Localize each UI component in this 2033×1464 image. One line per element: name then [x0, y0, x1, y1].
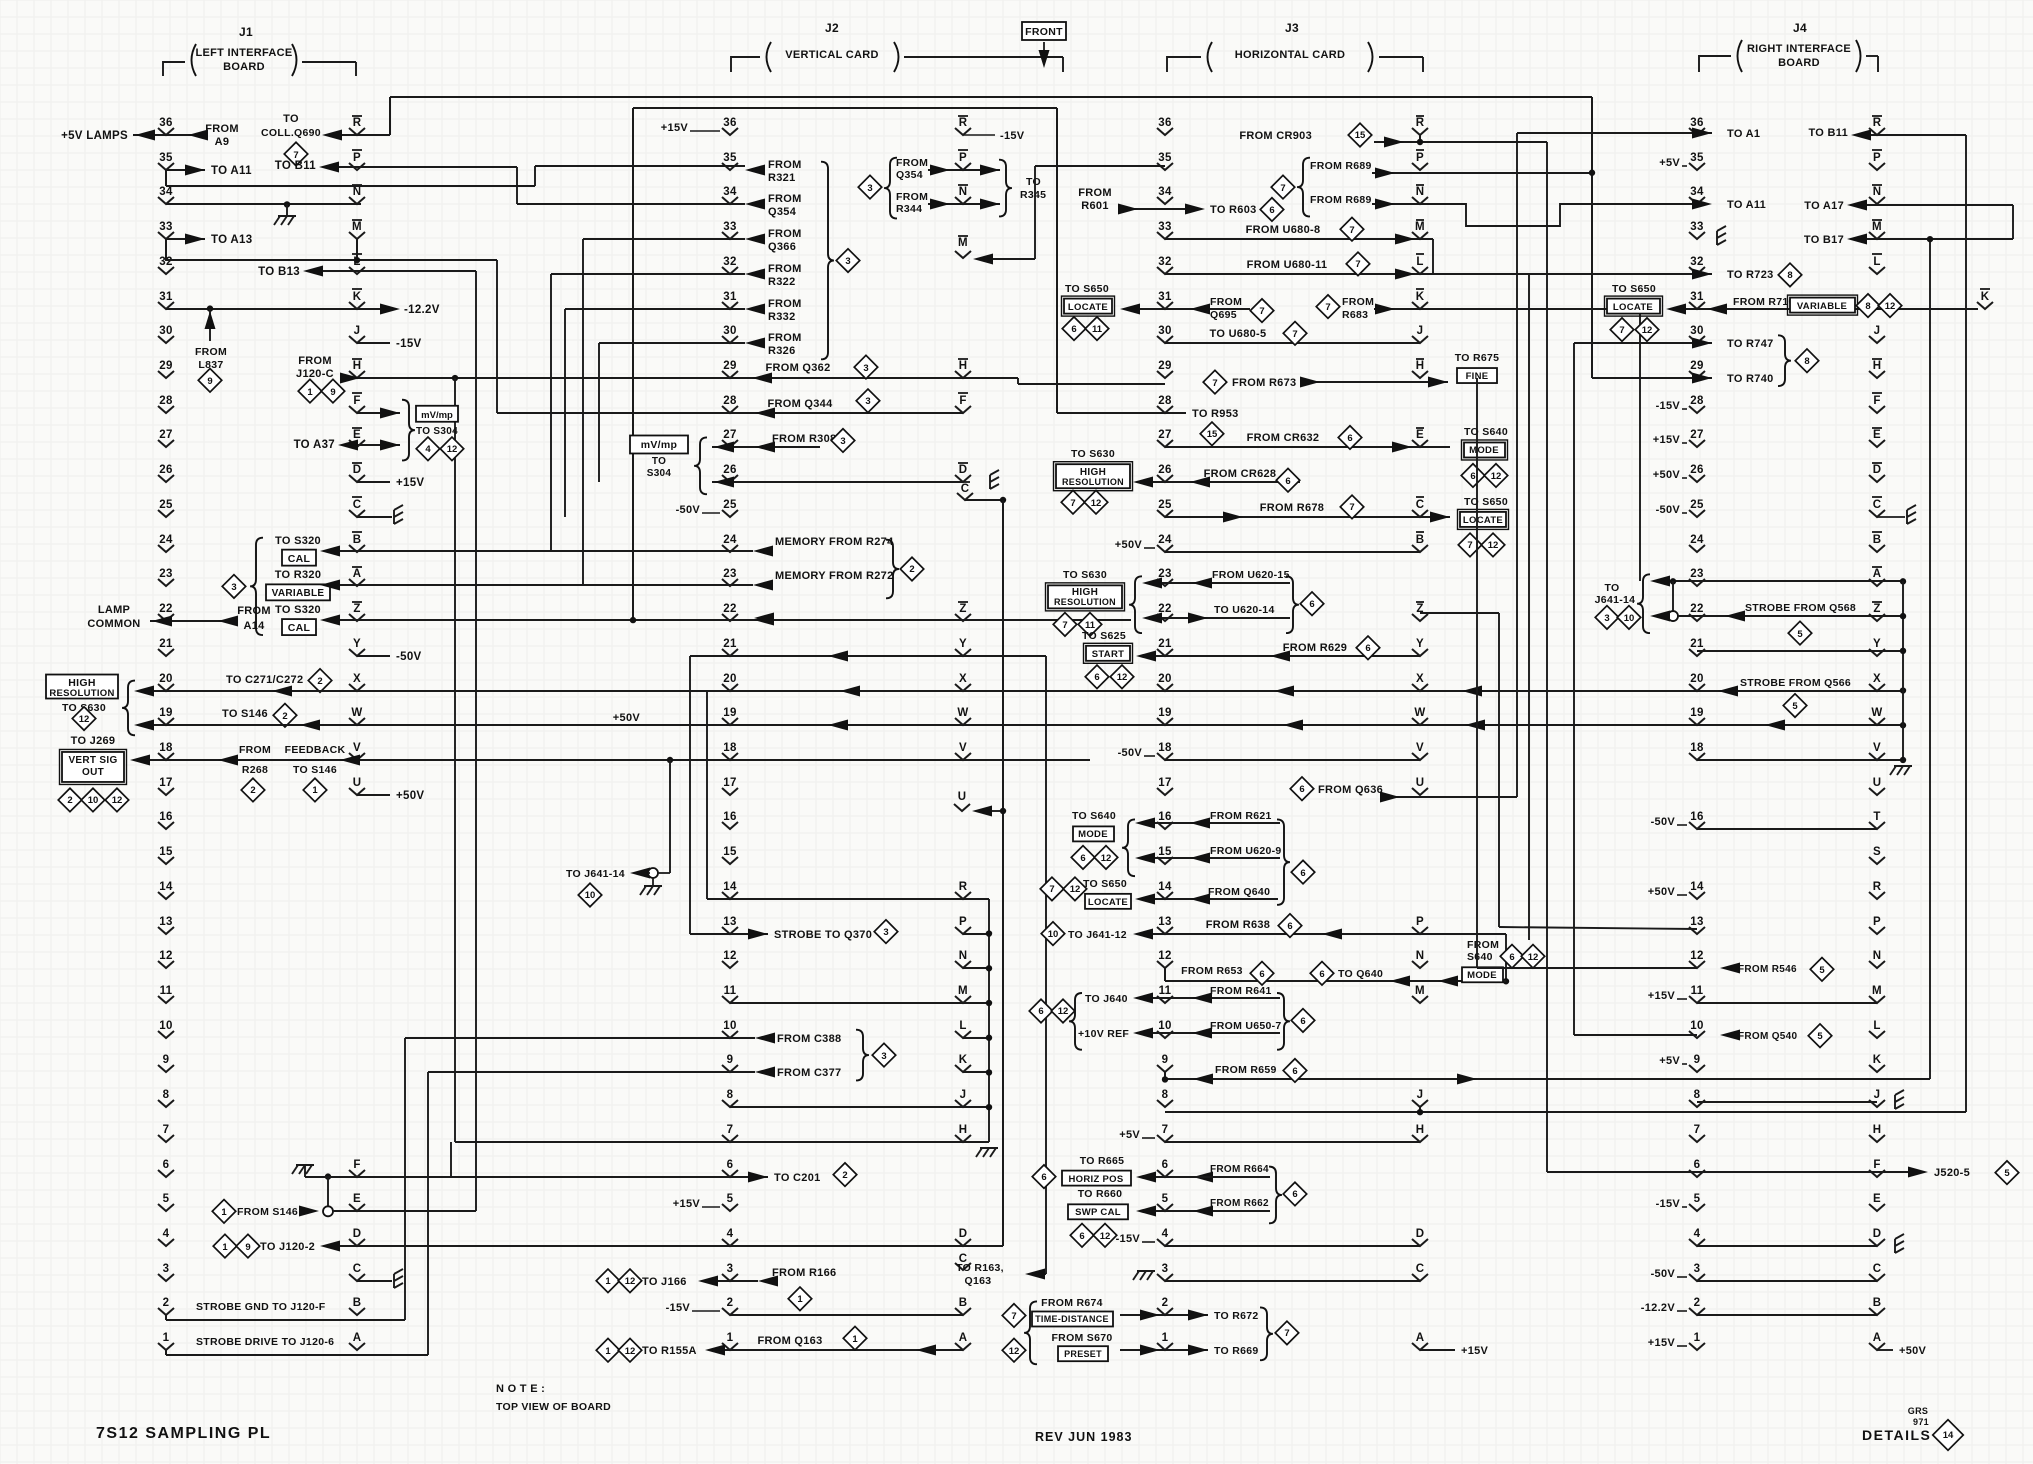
- label LAMP COMMON: [87, 604, 140, 630]
- connector J4 pin H (row 7): [1869, 1124, 1885, 1142]
- connector J2 pin 26: [722, 464, 738, 482]
- svg-text:3: 3: [1162, 1263, 1169, 1275]
- svg-text:20: 20: [1158, 673, 1171, 685]
- svg-text:5: 5: [1694, 1193, 1701, 1205]
- svg-text:2: 2: [67, 795, 72, 806]
- svg-text:27: 27: [723, 429, 736, 441]
- connector J1 pin D (row 4): [349, 1228, 365, 1246]
- svg-text:TO C271/C272: TO C271/C272: [226, 674, 303, 686]
- connector J4 pin 2: [1689, 1297, 1705, 1315]
- svg-text:+10V REF: +10V REF: [1078, 1028, 1129, 1040]
- svg-text:P: P: [1873, 152, 1881, 164]
- svg-text:TO R672: TO R672: [1214, 1310, 1259, 1322]
- wire FROM L837 up-arrow: [205, 309, 216, 341]
- svg-text:B: B: [353, 1297, 362, 1309]
- connector J2 pin 33: [722, 221, 738, 239]
- svg-text:31: 31: [159, 291, 173, 303]
- svg-text:7: 7: [1292, 329, 1297, 340]
- svg-text:K: K: [1873, 1054, 1882, 1066]
- svg-text:+50V: +50V: [613, 712, 641, 724]
- svg-text:FROM: FROM: [768, 159, 802, 171]
- wire J2 N row to riser: [963, 965, 992, 971]
- svg-text:J: J: [1874, 325, 1881, 337]
- svg-text:TO R740: TO R740: [1727, 373, 1774, 385]
- diamond 7 (R689 group): [1271, 175, 1294, 198]
- svg-text:32: 32: [1158, 256, 1171, 268]
- svg-text:K: K: [1981, 291, 1990, 303]
- svg-text:7: 7: [1259, 306, 1264, 317]
- connector J2 pin C (row 3): [955, 1253, 971, 1270]
- diamond 3 (P/N group): [858, 175, 881, 198]
- svg-text:C: C: [353, 499, 362, 511]
- label FROM R674: [1041, 1297, 1103, 1309]
- label FROM Q354: [768, 193, 802, 218]
- svg-text:-15V: -15V: [1116, 1233, 1141, 1245]
- box CAL (J1 B-bar): [282, 550, 316, 566]
- connector J3 pin 11: [1157, 985, 1173, 1003]
- svg-text:TO R155A: TO R155A: [642, 1345, 697, 1357]
- svg-text:FROM R308: FROM R308: [772, 433, 836, 445]
- connector J3 pin 7: [1157, 1124, 1173, 1142]
- svg-text:3: 3: [883, 927, 888, 938]
- connector J1 pin Y (row 21): [349, 638, 365, 656]
- svg-text:LOCATE: LOCATE: [1068, 302, 1108, 313]
- svg-text:F: F: [1873, 1159, 1880, 1171]
- connector J2 pin 32: [722, 256, 738, 274]
- svg-text:A: A: [1873, 1332, 1882, 1344]
- svg-text:10: 10: [1048, 929, 1059, 940]
- diamonds 2 10 12 (VERT SIG OUT): [58, 788, 128, 811]
- connector J4 pin 23: [1689, 568, 1705, 586]
- svg-text:10: 10: [1690, 1020, 1703, 1032]
- svg-text:Q695: Q695: [1210, 309, 1237, 321]
- label MEMORY FROM R272: [775, 570, 893, 582]
- connector J4 pin 36: [1689, 117, 1705, 135]
- svg-text:+15V: +15V: [1648, 1337, 1676, 1349]
- svg-text:E: E: [1873, 1193, 1881, 1205]
- connector J2 pin D-bar (row 26): [955, 463, 971, 482]
- svg-text:K: K: [353, 291, 362, 303]
- connector J4 pin J (row 8): [1869, 1089, 1885, 1107]
- wire J3-7 row +5V: [1119, 1129, 1420, 1142]
- svg-text:24: 24: [1690, 534, 1704, 546]
- svg-text:H: H: [959, 360, 968, 372]
- label TO J641-14 (J4): [1595, 582, 1636, 606]
- svg-text:D: D: [353, 1228, 362, 1240]
- svg-text:19: 19: [159, 707, 172, 719]
- wire J2 K row stub: [963, 1069, 992, 1075]
- connector J3 pin E-bar (row 27): [1412, 428, 1428, 447]
- label TO R660 (J3-5): [1078, 1188, 1123, 1200]
- svg-text:6: 6: [1365, 643, 1370, 654]
- svg-text:TO S630: TO S630: [1071, 448, 1115, 460]
- svg-text:MODE: MODE: [1467, 970, 1497, 981]
- svg-text:3: 3: [881, 1051, 886, 1062]
- wire riser x405 (row2 up to J2-10 row): [404, 1038, 406, 1320]
- wire J1-23 row to J2-23 (MEMORY FROM R272): [320, 580, 773, 591]
- brace left S320 group (J1): [250, 538, 263, 635]
- connector J3 pin 35: [1157, 152, 1173, 170]
- svg-text:21: 21: [159, 638, 173, 650]
- connector J1 pin 29: [158, 360, 174, 378]
- label TO Q640: [1310, 962, 1410, 987]
- label TO S320 (J1 Z-bar): [275, 604, 321, 616]
- svg-text:+15V: +15V: [1653, 434, 1681, 446]
- svg-text:FROM Q362: FROM Q362: [765, 362, 830, 374]
- wire J3-8 long row to x1966: [1165, 1109, 1966, 1115]
- svg-text:32: 32: [1690, 256, 1703, 268]
- svg-text:11: 11: [1159, 985, 1172, 997]
- connector J2 pin W (row 19): [955, 707, 971, 725]
- svg-text:COLL.Q690: COLL.Q690: [261, 127, 321, 139]
- connector J4 pin Y (row 21): [1869, 638, 1885, 656]
- wire riser x583 (to J1 A-bar row): [582, 239, 584, 586]
- svg-text:12: 12: [1100, 1231, 1111, 1242]
- diamonds 1 9 (TO J120-2): [213, 1234, 259, 1257]
- connector J3 pin 5: [1157, 1193, 1173, 1211]
- svg-text:U: U: [958, 791, 967, 803]
- svg-text:H: H: [1416, 360, 1425, 372]
- connector J1 pin 7: [158, 1124, 174, 1142]
- svg-text:OUT: OUT: [82, 767, 104, 778]
- wire J4-22 row STROBE FROM Q568: [1650, 611, 1906, 622]
- svg-text:9: 9: [245, 1242, 250, 1253]
- svg-text:36: 36: [723, 117, 736, 129]
- svg-text:23: 23: [1690, 568, 1703, 580]
- svg-text:12: 12: [79, 714, 90, 725]
- svg-text:TO U620-14: TO U620-14: [1214, 604, 1275, 616]
- label FROM R344 (group): [896, 191, 928, 215]
- svg-text:S640: S640: [1467, 951, 1493, 963]
- svg-text:FROM: FROM: [1467, 939, 1499, 951]
- diamonds 3 10 (J4-23): [1595, 606, 1640, 629]
- ground symbol J1 C: [394, 1269, 403, 1288]
- connector J4 pin 18: [1689, 742, 1705, 760]
- wire J4 rows 30/29 feed TO R747: [1574, 338, 1712, 349]
- connector J3 pin B-bar (row 24): [1412, 532, 1428, 552]
- brace left rows 23-22 (J4): [1637, 574, 1650, 633]
- svg-text:E: E: [353, 1193, 361, 1205]
- wire J3-32 row FROM U680-11: [1165, 269, 1529, 280]
- diamonds 7 12 (S650 C-bar): [1458, 533, 1504, 556]
- connector J4 pin 3: [1689, 1263, 1705, 1281]
- label FROM R659: [1215, 1059, 1307, 1082]
- svg-text:1: 1: [797, 1294, 803, 1305]
- connector J2 pin M-bar (displaced, row 33): [955, 236, 971, 258]
- label TO J640: [1085, 993, 1128, 1005]
- connector J3 pin J (row 8): [1412, 1089, 1428, 1114]
- svg-text:18: 18: [723, 742, 737, 754]
- wire J3 A row +15V stub: [1420, 1345, 1489, 1357]
- connector J3 pin M (row 11): [1412, 985, 1428, 1003]
- wire J3 K-bar row FROM R683: [1374, 304, 1640, 315]
- connector J2 pin L (row 10): [955, 1020, 971, 1038]
- connector J1 pin 12: [158, 950, 174, 968]
- label +15V (J1 D-bar): [396, 477, 424, 489]
- connector J3 pin 28: [1157, 395, 1173, 413]
- svg-text:FROM R629: FROM R629: [1283, 642, 1347, 654]
- svg-text:2: 2: [842, 1170, 847, 1181]
- svg-text:971: 971: [1913, 1417, 1929, 1427]
- wire J2 C-bar to riser x1003: [965, 497, 1006, 503]
- label FROM R662: [1210, 1198, 1269, 1209]
- svg-text:R683: R683: [1342, 309, 1368, 321]
- label FROM R601: [1078, 187, 1112, 212]
- connector J2 pin 5: [722, 1193, 738, 1211]
- label TO B11 (J1 P-bar): [275, 160, 317, 172]
- connector J4 pin F-bar (row 28): [1869, 393, 1885, 413]
- svg-text:F: F: [353, 395, 360, 407]
- wire J2-34 row from riser x517: [517, 203, 745, 205]
- label TO R669: [1214, 1345, 1259, 1357]
- svg-text:8: 8: [1787, 270, 1792, 281]
- connector J2 pin A (row 1): [955, 1332, 971, 1350]
- connector J2 pin 4: [722, 1228, 738, 1246]
- label TO J120-2: [260, 1241, 315, 1253]
- wire J1 H-bar row from J120-C to J3-29 jog: [340, 373, 1165, 385]
- diamond 5 (Q566): [1783, 694, 1806, 717]
- svg-text:Q366: Q366: [768, 241, 796, 253]
- wire riser x517 (P-bar row down to 34 level): [516, 167, 518, 204]
- svg-text:27: 27: [1690, 429, 1703, 441]
- label -15V (J4-28): [1656, 400, 1687, 412]
- wire J3-24 row +50V: [1115, 539, 1420, 552]
- label +15V (J2-36): [661, 122, 720, 134]
- svg-text:+15V: +15V: [1648, 990, 1676, 1002]
- connector J1 pin 18: [158, 742, 174, 760]
- diamonds 6 12 (rows11-10): [1029, 999, 1074, 1022]
- label TO R723: [1727, 263, 1802, 286]
- svg-text:N: N: [1873, 186, 1882, 198]
- svg-text:FROM Q540: FROM Q540: [1738, 1031, 1798, 1042]
- label FROM R673: [1203, 370, 1296, 393]
- svg-text:19: 19: [1690, 707, 1703, 719]
- label +15V (J4-27): [1653, 434, 1687, 446]
- svg-text:16: 16: [159, 811, 172, 823]
- svg-text:6: 6: [1094, 672, 1099, 683]
- svg-text:12: 12: [1070, 884, 1081, 895]
- svg-text:36: 36: [159, 117, 172, 129]
- wire J3-34 row FROM R601 TO R603: [1118, 204, 1205, 215]
- svg-text:6: 6: [1259, 969, 1264, 980]
- svg-text:Z: Z: [959, 603, 966, 615]
- wire J2-32 row from x551: [551, 273, 745, 275]
- svg-text:9: 9: [1162, 1054, 1169, 1066]
- wire riser x690 (row21 to row13): [689, 656, 691, 934]
- svg-text:-15V: -15V: [1656, 400, 1681, 412]
- wire J1-2 row to riser x405: [166, 1319, 405, 1321]
- connector J3 pin J (row 30): [1412, 325, 1428, 343]
- brace right mV/mp group (J1): [402, 400, 415, 461]
- wire J1 J row -15V stub: [357, 342, 390, 344]
- svg-text:FROM U650-7: FROM U650-7: [1210, 1020, 1282, 1032]
- wire row26 J2 to D-bar earth: [712, 477, 963, 488]
- svg-text:B: B: [1873, 534, 1882, 546]
- svg-text:7: 7: [1070, 498, 1075, 509]
- svg-text:6: 6: [1041, 1172, 1046, 1183]
- wire row8 J2 (8 to J riser): [730, 1104, 992, 1110]
- label FROM CR903: [1239, 130, 1312, 142]
- connector J4 pin 33: [1689, 221, 1705, 239]
- arrow after N (row12): [1438, 976, 1458, 987]
- label TO S304 (J2): [647, 456, 672, 479]
- svg-text:+5V: +5V: [1659, 1055, 1680, 1067]
- connector J3 pin 3: [1157, 1263, 1173, 1281]
- connector J4 pin 6: [1689, 1159, 1705, 1177]
- svg-text:GRS: GRS: [1908, 1406, 1928, 1416]
- wire row29 J2 (FROM Q362): [752, 355, 878, 383]
- ground symbol J1-6 (chassis): [292, 1165, 328, 1177]
- svg-text:9: 9: [207, 376, 212, 387]
- wire riser x497 (row33 feed to J2-28): [496, 260, 498, 413]
- connector J1 pin W (row 19): [349, 707, 365, 725]
- label FROM R689 (P-bar): [1310, 160, 1372, 172]
- svg-text:3: 3: [163, 1263, 170, 1275]
- connector J2 pin 15: [722, 846, 738, 864]
- label FROM A14: [237, 605, 271, 632]
- wire row9 J2 FROM C377: [428, 1067, 841, 1080]
- svg-text:10: 10: [1158, 1020, 1171, 1032]
- diamond 7 (J3-2): [1002, 1304, 1025, 1327]
- svg-text:1: 1: [222, 1242, 228, 1253]
- svg-text:D: D: [1873, 1228, 1882, 1240]
- label TO S146: [222, 708, 268, 720]
- wire row28 J2 (FROM Q344): [497, 389, 963, 418]
- connector J4 pin 26: [1689, 464, 1705, 482]
- label TO J166: [642, 1276, 687, 1288]
- svg-text:mV/mp: mV/mp: [641, 439, 678, 451]
- svg-text:J4: J4: [1793, 21, 1807, 35]
- svg-text:B: B: [353, 534, 362, 546]
- label -50V (J4-25): [1656, 504, 1687, 516]
- svg-text:BOARD: BOARD: [223, 61, 265, 73]
- connector J1 pin V (row 18): [349, 742, 365, 760]
- connector J1 pin R-bar (row 36): [349, 116, 365, 135]
- connector J2 pin N-bar (row 34): [955, 185, 971, 204]
- diamond 2 (row 20): [308, 669, 331, 692]
- svg-text:14: 14: [1690, 881, 1704, 893]
- svg-text:17: 17: [723, 777, 736, 789]
- svg-text:7: 7: [1062, 620, 1067, 631]
- label FEEDBACK TO S146: [285, 744, 346, 776]
- svg-text:29: 29: [1158, 360, 1171, 372]
- svg-text:+15V: +15V: [396, 477, 424, 489]
- wire J3-9 row FROM R659: [1162, 1074, 1930, 1085]
- connector J3 pin C (row 3): [1412, 1263, 1428, 1281]
- svg-text:16: 16: [1690, 811, 1703, 823]
- box TIME-DISTANCE (J3-2): [1032, 1311, 1113, 1326]
- svg-text:12: 12: [625, 1276, 636, 1287]
- svg-text:8: 8: [1162, 1089, 1169, 1101]
- svg-text:4: 4: [425, 444, 431, 455]
- connector J2 pin 2: [722, 1297, 738, 1315]
- svg-text:REV JUN 1983: REV JUN 1983: [1035, 1430, 1132, 1444]
- wire J3-4 row -15V: [1116, 1233, 1420, 1246]
- svg-text:6: 6: [1287, 921, 1292, 932]
- svg-text:A9: A9: [215, 136, 230, 148]
- label TO S640 (J3 E-bar): [1464, 426, 1508, 438]
- svg-text:5: 5: [1792, 701, 1798, 712]
- label +5V (J4-35): [1659, 157, 1687, 169]
- svg-text:4: 4: [1694, 1228, 1701, 1240]
- svg-text:FROM CR628: FROM CR628: [1204, 468, 1277, 480]
- svg-text:N O T E :: N O T E :: [496, 1383, 545, 1395]
- svg-text:MODE: MODE: [1469, 445, 1499, 456]
- connector J4 pin P-bar (row 35): [1869, 150, 1885, 170]
- svg-text:FROM: FROM: [896, 191, 928, 203]
- wire J3-30 row TO U680-5: [1165, 342, 1420, 344]
- svg-text:16: 16: [1158, 811, 1171, 823]
- connector J2 pin 10: [722, 1020, 738, 1038]
- connector J4 pin 29: [1689, 360, 1705, 378]
- connector J3 pin 34: [1157, 186, 1173, 204]
- label TO COLL.Q690: [261, 113, 321, 139]
- svg-text:15: 15: [1158, 846, 1172, 858]
- svg-text:FROM S146: FROM S146: [237, 1206, 298, 1218]
- wire riser x989 (row14 down to row7 ground): [988, 899, 990, 1142]
- svg-text:34: 34: [159, 186, 173, 198]
- ground symbol below J641-14 circle: [640, 878, 662, 895]
- arrow into J2-35: [745, 165, 765, 176]
- svg-text:FRONT: FRONT: [1025, 26, 1063, 38]
- label TO A13: [211, 234, 252, 246]
- svg-text:M: M: [958, 985, 968, 997]
- wire J1 E row to riser x476: [333, 1210, 476, 1212]
- svg-text:TO A11: TO A11: [211, 165, 252, 177]
- svg-text:N: N: [1416, 950, 1425, 962]
- connector J4 pin 35: [1689, 152, 1705, 170]
- connector J1 pin 15: [158, 846, 174, 864]
- svg-text:TO R723: TO R723: [1727, 269, 1774, 281]
- svg-text:12: 12: [1690, 950, 1703, 962]
- svg-text:24: 24: [723, 534, 737, 546]
- diamonds 6 12 (S640): [1461, 464, 1507, 487]
- box VERT SIG OUT (J1): [60, 749, 127, 784]
- connector J1 pin 6: [158, 1159, 174, 1177]
- connector J4 pin 16: [1689, 811, 1705, 829]
- wire J3 N-bar row jog to J4-34 TO A11: [1372, 199, 1712, 227]
- wire J3-28 row TO R953: [1057, 412, 1186, 414]
- ground symbol J4 D: [1895, 1234, 1904, 1253]
- arrow FROM S146: [299, 1206, 319, 1217]
- diamond 1 (FROM S146): [212, 1200, 235, 1223]
- svg-text:MEMORY FROM R274: MEMORY FROM R274: [775, 536, 894, 548]
- svg-text:20: 20: [1690, 673, 1703, 685]
- wire riser x535 (J1-35 to J2-35 row): [534, 166, 536, 186]
- box HORIZ POS (J3-6): [1062, 1171, 1131, 1186]
- FRONT direction marker: [1022, 22, 1066, 68]
- svg-text:2: 2: [909, 564, 914, 575]
- connector J1 pin 20: [158, 673, 174, 691]
- svg-text:E: E: [1416, 429, 1424, 441]
- label FROM J120-C: [296, 355, 334, 380]
- connector J4 pin 9: [1689, 1054, 1705, 1072]
- diamond 5 (Q568): [1788, 621, 1811, 644]
- label TO A17 (J4 N-bar): [1804, 200, 1844, 212]
- wire J1-33 drop and run to x497 riser: [166, 248, 497, 260]
- connector J1 pin F (row 6): [349, 1159, 365, 1177]
- label TO S650 (J3-31): [1065, 283, 1109, 295]
- svg-text:V: V: [1416, 742, 1424, 754]
- svg-text:START: START: [1092, 649, 1124, 660]
- connector J4 pin 20: [1689, 673, 1705, 691]
- arrow J2 U row: [972, 806, 1006, 817]
- label TO S630 (J3-26): [1071, 448, 1115, 460]
- svg-text:TO U680-5: TO U680-5: [1210, 328, 1267, 340]
- svg-text:1: 1: [312, 785, 318, 796]
- svg-text:2: 2: [727, 1297, 734, 1309]
- svg-text:6: 6: [1347, 433, 1352, 444]
